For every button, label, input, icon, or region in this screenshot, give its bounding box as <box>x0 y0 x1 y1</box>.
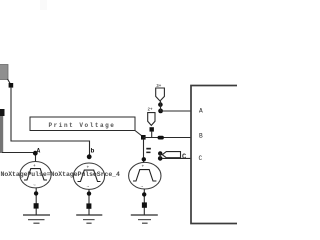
source V2 (pulse source circle) <box>73 163 104 190</box>
node dot <box>34 203 39 208</box>
svg-text:+: + <box>87 166 90 171</box>
svg-text:~: ~ <box>141 185 144 190</box>
wire (left vertical run to net B row) <box>11 87 90 156</box>
IC block U1 <box>191 86 261 224</box>
wire (diagonal from box corner to node) <box>135 131 142 137</box>
terminal dot <box>142 192 146 196</box>
net tag C dots <box>158 151 162 155</box>
node dot (net B / source 3 junction) <box>141 135 146 140</box>
Print Voltage box <box>30 117 135 131</box>
svg-text:+: + <box>142 165 145 170</box>
faint artifact rectangle top <box>40 0 47 10</box>
terminal dot of J3 <box>158 102 163 107</box>
wire (to source 1 top) <box>2 153 36 163</box>
terminal dot <box>87 191 91 195</box>
node dot <box>9 83 14 88</box>
source V-left (clipped component at left edge) <box>0 109 5 153</box>
svg-text:+: + <box>33 164 36 169</box>
wire (J3 terminal stub) <box>160 101 162 111</box>
node B dot <box>87 154 92 159</box>
source V1 (pulse source circle) <box>20 162 51 189</box>
component J2 (shield symbol above node B) <box>148 109 156 126</box>
component J3 (shield symbol top) <box>156 85 165 101</box>
svg-text:2+: 2+ <box>148 109 154 113</box>
terminal dot <box>34 191 38 195</box>
node dot <box>86 203 91 208</box>
ground 3 <box>131 215 158 223</box>
junction dot on pin B rail <box>158 136 164 140</box>
svg-text:~: ~ <box>87 185 90 190</box>
wire (pin C rail) <box>162 157 191 159</box>
svg-text:~: ~ <box>33 184 36 189</box>
svg-text:A: A <box>37 147 41 154</box>
wire (pin A rail) <box>161 110 192 112</box>
wire (down to source 3) <box>143 139 145 163</box>
svg-text:3+: 3+ <box>156 85 162 89</box>
svg-text:NoXtagePulse=NoXtagePulseSrce_: NoXtagePulse=NoXtagePulseSrce_4 <box>1 171 121 178</box>
wire (pin B rail) <box>144 137 192 139</box>
svg-text:B: B <box>199 133 203 140</box>
svg-text:C: C <box>199 155 203 162</box>
wire (source 3 to ground) <box>143 189 145 215</box>
source V3 (pulse source circle) <box>129 162 161 190</box>
wire (tag stub) <box>159 153 161 158</box>
probe P1 (gray box clipped at left edge) <box>0 65 8 80</box>
ground 2 <box>76 215 102 223</box>
svg-text:A: A <box>199 108 203 115</box>
wire (J2 to pin B rail) <box>151 131 153 138</box>
junction dot pin A <box>158 109 163 114</box>
wire (source 2 to ground) <box>88 190 90 216</box>
node A dot <box>33 151 38 156</box>
label c <box>146 148 151 153</box>
ground 1 <box>23 215 50 223</box>
svg-text:Print Voltage: Print Voltage <box>49 122 116 129</box>
net tag C flag <box>162 152 180 158</box>
node dot on source 3 wire <box>142 157 146 161</box>
svg-text:C: C <box>182 153 186 161</box>
svg-text:b: b <box>91 148 95 155</box>
wire (source 1 to ground) <box>35 188 37 215</box>
wire (diagonal from probe to node) <box>8 79 12 85</box>
terminal dot of J2 <box>150 127 154 131</box>
node dot <box>142 202 147 207</box>
